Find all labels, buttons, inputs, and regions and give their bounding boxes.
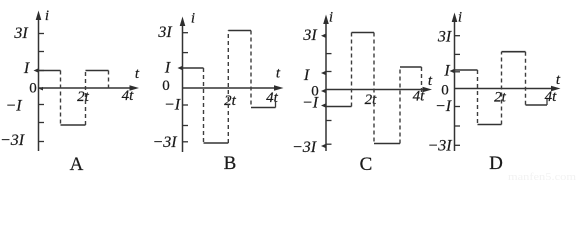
D tick 2I [455, 53, 461, 55]
C v3 dashed [399, 67, 401, 144]
C v1 dashed [351, 33, 353, 107]
D y-axis arrowhead [452, 13, 458, 23]
D v4 end [546, 99, 548, 105]
svg-text:i: i [458, 10, 462, 26]
B seg2 -3I [204, 142, 229, 144]
D seg2 -2I [478, 124, 502, 126]
B v3 dashed [250, 31, 252, 108]
C v4 dashed [421, 67, 423, 92]
A x-axis [39, 87, 132, 89]
B x-axis arrowhead [274, 85, 284, 91]
C seg2 +3I [352, 32, 375, 34]
svg-text:−3I: −3I [0, 132, 25, 149]
D v2 dashed [501, 52, 503, 125]
D tick 3I [455, 35, 461, 37]
D arrow at I [450, 69, 455, 73]
svg-text:i: i [329, 10, 333, 26]
svg-text:4t: 4t [266, 90, 279, 106]
svg-text:−3I: −3I [427, 138, 452, 155]
svg-text:i: i [45, 8, 49, 24]
svg-text:manfen5.com: manfen5.com [508, 171, 576, 181]
B v2 dashed [227, 31, 229, 144]
svg-text:0: 0 [29, 81, 37, 97]
C x-axis arrowhead [423, 87, 433, 93]
svg-text:3I: 3I [302, 27, 317, 44]
C arrow at 0 [321, 89, 326, 93]
D v3 dashed [525, 52, 527, 105]
svg-text:3I: 3I [157, 24, 172, 41]
svg-text:−I: −I [435, 98, 452, 115]
C x-axis [326, 89, 424, 91]
svg-text:2t: 2t [365, 92, 378, 108]
D x-axis [455, 88, 553, 90]
A arrow at I [34, 69, 39, 73]
B y-axis arrowhead [180, 17, 186, 27]
C tick -2I [326, 120, 332, 122]
C arrow at -I [321, 104, 326, 108]
C seg4 +I [400, 66, 422, 68]
svg-text:C: C [360, 154, 373, 175]
A y-axis arrowhead [36, 11, 42, 21]
C tick -3I [326, 143, 332, 145]
D x-axis arrowhead [551, 86, 561, 92]
A v3 dashed [108, 71, 110, 90]
svg-text:3I: 3I [437, 29, 452, 46]
C y-axis [325, 20, 327, 151]
svg-text:I: I [303, 67, 310, 84]
svg-text:−3I: −3I [152, 134, 177, 151]
A arrow at 0 [39, 87, 43, 91]
D seg4 -I [526, 104, 548, 106]
svg-text:2t: 2t [494, 90, 507, 106]
B seg1 +I [183, 67, 204, 69]
D v1 dashed [477, 70, 479, 125]
svg-text:−3I: −3I [292, 139, 317, 156]
B seg3 +3I [228, 30, 251, 32]
B tick -2I [183, 125, 189, 127]
svg-text:I: I [443, 63, 450, 80]
svg-text:−I: −I [302, 95, 319, 112]
C tick 2I [326, 53, 332, 55]
B tick 2I [183, 52, 189, 54]
B v1 dashed [203, 68, 205, 143]
A tick I [39, 70, 45, 72]
svg-text:I: I [23, 60, 30, 77]
A x-axis arrowhead [130, 85, 140, 91]
C tick I [326, 71, 332, 73]
svg-text:−I: −I [164, 97, 181, 114]
svg-text:0: 0 [162, 78, 170, 94]
A tick -2I [39, 122, 45, 124]
C seg1 -I [326, 106, 352, 108]
D seg1 +I [455, 69, 478, 71]
D seg3 +2I [502, 51, 526, 53]
A v2 dashed [85, 71, 87, 126]
A tick -3I [39, 141, 45, 143]
B seg4 -I [251, 107, 276, 109]
svg-text:0: 0 [441, 83, 449, 99]
svg-text:4t: 4t [413, 89, 426, 105]
svg-text:B: B [224, 153, 237, 174]
C arrow at I [321, 71, 326, 75]
C arrow at -3I [321, 144, 326, 148]
svg-text:D: D [489, 153, 503, 174]
svg-text:−I: −I [5, 98, 22, 115]
A y-axis [38, 16, 40, 151]
A seg3 +I [86, 70, 109, 72]
B tick -3I [183, 141, 189, 143]
C seg3 -3I [374, 143, 400, 145]
svg-text:4t: 4t [122, 88, 135, 104]
A tick 3I [39, 33, 45, 35]
A tick 2I [39, 51, 45, 53]
B arrow at I [178, 66, 183, 70]
D y-axis [454, 18, 456, 151]
A tick -I [39, 104, 45, 106]
B y-axis [182, 22, 184, 152]
B tick 3I [183, 32, 189, 34]
B x-axis [183, 87, 275, 89]
D tick -2I [455, 125, 461, 127]
A v1 dashed [60, 71, 62, 126]
svg-text:A: A [70, 154, 84, 175]
svg-text:I: I [164, 60, 171, 77]
B v4 end [275, 102, 277, 108]
svg-text:3I: 3I [13, 25, 28, 42]
svg-text:2t: 2t [77, 89, 90, 105]
D tick I [455, 71, 461, 73]
A seg2 -2I [61, 124, 86, 126]
C arrow at 3I [321, 34, 326, 38]
D tick -3I [455, 144, 461, 146]
C y-axis arrowhead [323, 15, 329, 25]
B tick -I [183, 104, 189, 106]
C v2 dashed [373, 33, 375, 144]
D tick -I [455, 106, 461, 108]
A seg1 +I [39, 70, 61, 72]
svg-text:2t: 2t [224, 93, 237, 109]
svg-text:i: i [191, 11, 195, 27]
